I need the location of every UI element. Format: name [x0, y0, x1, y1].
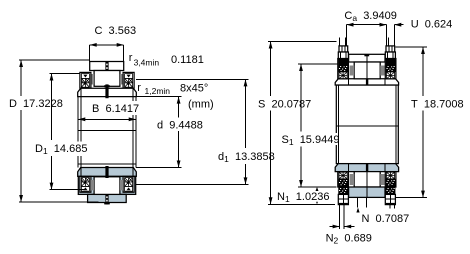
- svg-text:N1 1.0236: N1 1.0236: [277, 191, 329, 204]
- svg-text:N2 0.689: N2 0.689: [326, 233, 372, 246]
- svg-text:(mm): (mm): [188, 99, 214, 111]
- svg-text:r: r: [129, 52, 133, 64]
- svg-text:T 18.7008: T 18.7008: [411, 99, 464, 111]
- svg-text:D1 14.685: D1 14.685: [35, 143, 87, 156]
- svg-text:d 9.4488: d 9.4488: [157, 120, 203, 132]
- svg-text:Ca 3.9409: Ca 3.9409: [344, 10, 396, 23]
- svg-text:C 3.563: C 3.563: [95, 25, 137, 37]
- svg-text:S 20.0787: S 20.0787: [258, 99, 311, 111]
- svg-text:U 0.624: U 0.624: [411, 19, 453, 31]
- svg-text:0.1181: 0.1181: [171, 54, 204, 66]
- svg-text:r: r: [137, 82, 141, 94]
- svg-text:3,4min: 3,4min: [134, 58, 160, 68]
- svg-text:N 0.7087: N 0.7087: [362, 213, 410, 225]
- svg-text:8x45°: 8x45°: [180, 83, 208, 95]
- svg-text:B 6.1417: B 6.1417: [92, 103, 139, 115]
- svg-text:D 17.3228: D 17.3228: [9, 98, 63, 110]
- svg-text:1,2min: 1,2min: [145, 86, 171, 96]
